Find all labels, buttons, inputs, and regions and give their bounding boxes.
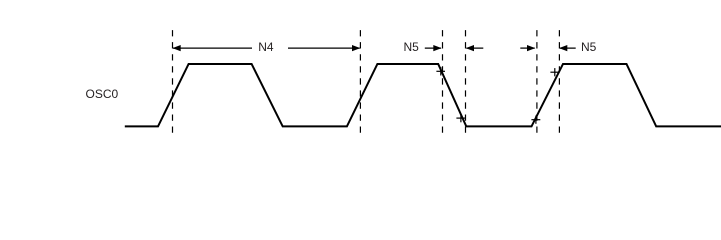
dashed reference line at rise end threshold — [558, 30, 560, 133]
dimension arrow pointing right at rise-start dashed line — [520, 45, 535, 51]
dimension arrow N4 right (arrowhead pointing right at second dashed line) — [288, 45, 360, 51]
dimension arrow pointing left at fall-end dashed line — [466, 45, 484, 51]
dimension arrow N4 left (arrowhead pointing left at first dashed line) — [172, 45, 252, 51]
threshold tick mark on rising edge top (+) — [550, 68, 559, 76]
dashed reference line at fall end threshold — [465, 30, 467, 133]
dimension arrow N5 fall, pointing right — [425, 45, 442, 51]
svg-text:N5: N5 — [581, 40, 597, 54]
threshold tick mark on falling edge bottom (+) — [456, 114, 465, 122]
waveform trace OSC0 — [125, 64, 721, 126]
threshold tick mark on rising edge bottom (+) — [531, 116, 540, 124]
dimension arrow N5 rise, pointing left at rise-end dashed line — [559, 45, 576, 51]
svg-text:OSC0: OSC0 — [86, 87, 119, 101]
svg-text:N5: N5 — [404, 40, 420, 54]
dashed reference line at fall start threshold — [442, 30, 444, 133]
dashed reference line at rising edge 2 midpoint — [359, 30, 361, 133]
dashed reference line at rise start threshold — [536, 30, 538, 133]
svg-text:N4: N4 — [258, 40, 274, 54]
threshold tick mark on falling edge top (+) — [436, 67, 445, 75]
dashed reference line at rising edge 1 midpoint — [172, 30, 174, 133]
